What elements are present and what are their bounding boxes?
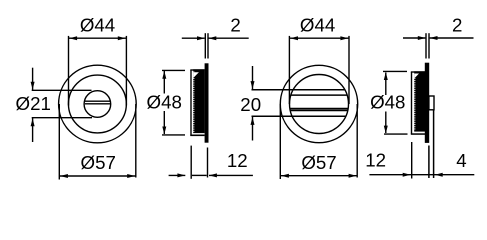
svg-text:Ø44: Ø44: [300, 14, 335, 35]
svg-text:2: 2: [230, 14, 240, 35]
svg-text:Ø21: Ø21: [16, 93, 51, 114]
svg-text:Ø48: Ø48: [147, 91, 182, 112]
svg-text:12: 12: [365, 150, 386, 171]
svg-text:12: 12: [227, 150, 248, 171]
svg-text:20: 20: [240, 94, 261, 115]
svg-text:Ø48: Ø48: [370, 91, 405, 112]
svg-text:4: 4: [456, 150, 466, 171]
svg-text:Ø44: Ø44: [80, 14, 115, 35]
svg-text:2: 2: [452, 15, 462, 36]
svg-text:Ø57: Ø57: [301, 152, 336, 173]
svg-text:Ø57: Ø57: [81, 152, 116, 173]
